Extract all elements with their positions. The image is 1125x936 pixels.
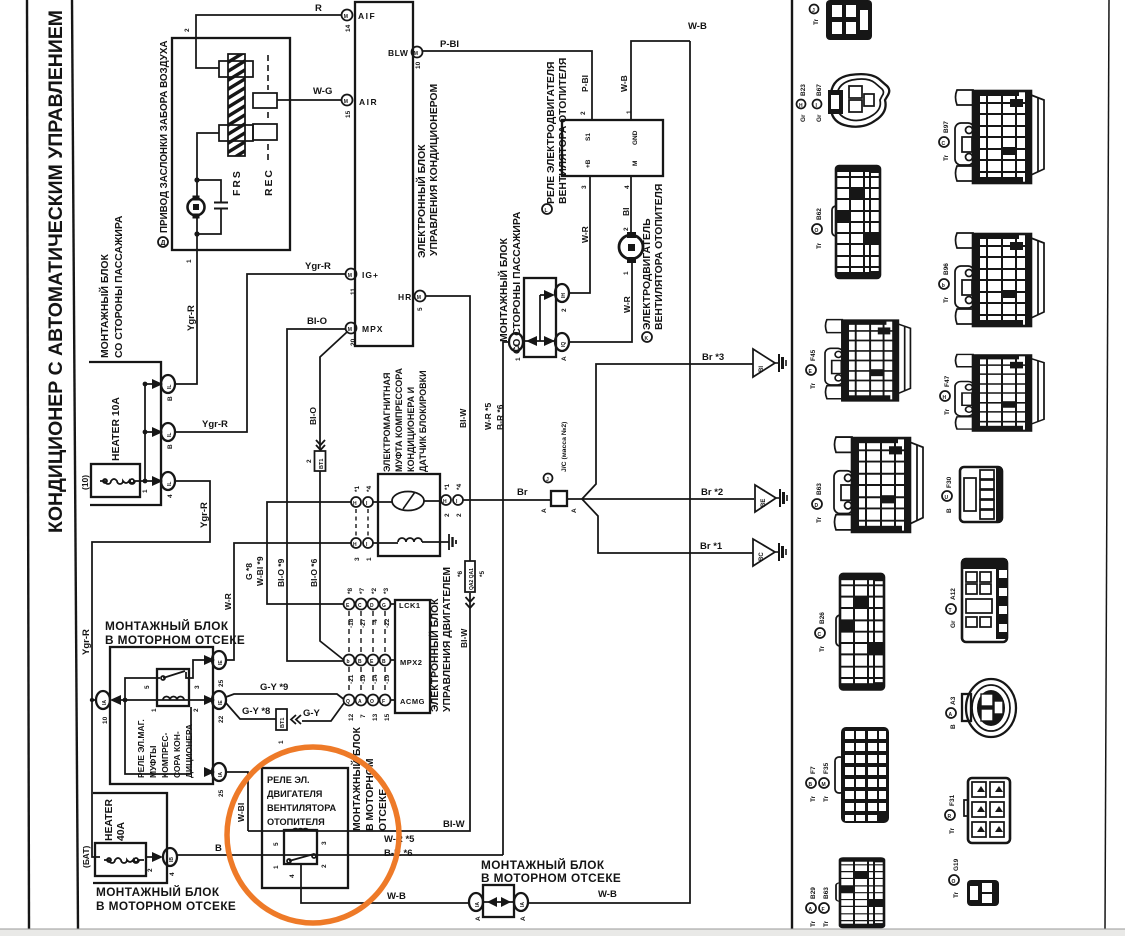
svg-text:P-BI: P-BI: [440, 39, 459, 50]
svg-text:b: b: [942, 283, 945, 289]
svg-text:O: O: [952, 879, 956, 885]
clutch internal wire top: [374, 501, 441, 502]
svg-text:ПРИВОД ЗАСЛОНКИ ЗАБОРА ВОЗДУХА: ПРИВОД ЗАСЛОНКИ ЗАБОРА ВОЗДУХА: [159, 41, 170, 234]
svg-text:МУФТА КОМПРЕССОРА: МУФТА КОМПРЕССОРА: [394, 368, 404, 472]
junction dot damper bottom: [194, 231, 199, 236]
svg-text:B: B: [382, 659, 386, 665]
svg-text:B-R *6: B-R *6: [495, 404, 505, 430]
connector Tr O B62: [832, 166, 880, 278]
svg-text:Br *3: Br *3: [702, 352, 724, 363]
svg-text:14: 14: [345, 24, 352, 32]
svg-text:A: A: [520, 916, 527, 921]
svg-text:МОНТАЖНЫЙ БЛОК: МОНТАЖНЫЙ БЛОК: [481, 858, 605, 872]
svg-text:МОНТАЖНЫЙ БЛОК: МОНТАЖНЫЙ БЛОК: [98, 254, 111, 358]
svg-text:ЭЛЕКТРОННЫЙ БЛОК: ЭЛЕКТРОННЫЙ БЛОК: [428, 598, 441, 712]
svg-text:C: C: [358, 603, 362, 609]
svg-text:M: M: [414, 51, 418, 57]
svg-text:ВЕНТИЛЯТОРА ОТОПИТЕЛЯ: ВЕНТИЛЯТОРА ОТОПИТЕЛЯ: [654, 184, 665, 330]
svg-text:4: 4: [624, 185, 631, 189]
heater fan motor ЭЛЕКТРОДВИГАТЕЛЬ ВЕНТИЛЯТОРА ОТОПИТЕЛЯ: [619, 227, 643, 275]
oval connector IB with arrow: [152, 848, 177, 876]
svg-text:H: H: [353, 542, 357, 548]
svg-text:IL: IL: [167, 433, 173, 437]
svg-text:КОНДИЦИОНЕРА И: КОНДИЦИОНЕРА И: [406, 387, 416, 472]
svg-text:5: 5: [144, 685, 151, 689]
damper dashed travel line: [267, 55, 269, 162]
svg-text:*2: *2: [371, 587, 378, 594]
svg-text:M: M: [344, 14, 348, 20]
svg-text:ДИЦИОНЕРА: ДИЦИОНЕРА: [184, 724, 194, 778]
svg-text:A: A: [541, 508, 548, 513]
svg-text:2: 2: [321, 864, 328, 868]
svg-text:W-BI *9: W-BI *9: [255, 556, 265, 586]
svg-text:1: 1: [623, 271, 630, 275]
damper motor M1: [188, 196, 205, 219]
fuse right lead with pin 1: [140, 480, 152, 482]
clutch pins left bottom H I: [351, 538, 373, 561]
fuse 40A right lead pin 2: [146, 856, 152, 858]
svg-text:B97: B97: [943, 121, 950, 133]
svg-text:B: B: [358, 659, 362, 665]
svg-text:15: 15: [384, 713, 391, 721]
svg-text:2: 2: [193, 708, 200, 712]
wire damper motor lead down: [196, 215, 198, 250]
svg-text:МОНТАЖНЫЙ БЛОК: МОНТАЖНЫЙ БЛОК: [105, 619, 229, 633]
wire B / W-R*5 B-R*6 through fan relay: [177, 854, 503, 856]
svg-text:1: 1: [142, 489, 149, 493]
svg-text:FRS: FRS: [232, 169, 243, 196]
svg-text:BI-W: BI-W: [443, 819, 465, 830]
svg-text:F: F: [382, 699, 385, 705]
border line right page edge: [1105, 0, 1109, 929]
fuse HEATER 10A element: [100, 479, 140, 484]
svg-text:1: 1: [626, 110, 633, 114]
svg-text:*1: *1: [444, 483, 451, 490]
connector Tr O G19: [949, 858, 999, 906]
svg-text:IL: IL: [167, 385, 173, 389]
relay coil on wire: [163, 697, 184, 700]
compressor clutch box ЭЛЕКТРОМАГНИТНАЯ МУФТА КОМПРЕССОРА: [378, 474, 440, 556]
svg-text:T: T: [949, 608, 952, 614]
damper top crossing plate: [219, 61, 253, 77]
pin AIR 15: [342, 95, 379, 119]
border line left outer: [27, 0, 29, 929]
fan relay name label with circled L: [542, 58, 569, 214]
svg-text:F30: F30: [946, 476, 953, 488]
svg-text:УПРАВЛЕНИЯ ДВИГАТЕЛЕМ: УПРАВЛЕНИЯ ДВИГАТЕЛЕМ: [442, 567, 453, 712]
fan motor relay block РЕЛЕ ЭЛ. ДВИГАТЕЛЯ ВЕНТИЛЯТОРА ОТОПИТЕЛЯ: [262, 768, 348, 888]
wire damper internal bottom plate to motor: [197, 133, 219, 198]
clutch pins right H I: [441, 483, 463, 517]
oval connector 4(IL) bottom with arrow: [152, 472, 175, 498]
svg-text:22: 22: [218, 715, 225, 723]
wire HR / BI-W down to fan relay block: [426, 296, 471, 561]
svg-text:MPX2: MPX2: [400, 658, 422, 667]
svg-text:B23: B23: [800, 84, 807, 96]
ground at clutch sensor: [449, 534, 456, 550]
dashed bus LCK1 to MPX2: [349, 611, 385, 653]
svg-text:2: 2: [147, 868, 154, 872]
svg-text:Ygr-R: Ygr-R: [186, 305, 197, 331]
svg-text:Tr: Tr: [823, 795, 830, 802]
svg-text:G-Y *8: G-Y *8: [242, 706, 270, 717]
wire W-B long vertical right: [528, 41, 690, 903]
svg-text:Tr: Tr: [953, 891, 960, 898]
connector Tr D B63: [834, 437, 923, 532]
svg-text:*8: *8: [347, 587, 354, 594]
svg-text:BC: BC: [759, 552, 765, 561]
connector B A A3 round: [946, 679, 1016, 737]
svg-text:S1: S1: [585, 133, 592, 141]
svg-text:P-BI: P-BI: [580, 75, 590, 92]
ground triangle BI (Br *3): [753, 349, 786, 377]
connector Tr E F45: [825, 320, 910, 401]
svg-text:4: 4: [167, 494, 174, 498]
svg-text:*4: *4: [456, 483, 463, 490]
svg-text:3: 3: [194, 685, 201, 689]
svg-text:1: 1: [186, 259, 193, 263]
svg-text:IL: IL: [167, 482, 173, 486]
JB2 internal riser: [539, 295, 541, 341]
svg-text:AIF: AIF: [358, 11, 376, 21]
svg-text:IL: IL: [515, 343, 521, 347]
svg-text:Gr: Gr: [950, 620, 957, 628]
oval connector A(IA) right: [514, 893, 528, 921]
svg-text:AIR: AIR: [359, 97, 378, 107]
connector Tr b B96: [955, 233, 1044, 326]
svg-text:BI-O: BI-O: [308, 407, 318, 425]
svg-text:1: 1: [273, 865, 280, 869]
svg-text:1: 1: [151, 708, 158, 712]
pin row ACMG: Q A O F: [344, 695, 396, 722]
wire Ygr-R from bottom oval down-left: [92, 481, 210, 857]
connector Tr B F7 / Tr M F35: [806, 727, 889, 823]
wire W-B from fan relay pin4: [301, 864, 469, 903]
svg-text:IQ: IQ: [561, 342, 567, 347]
wire Br *3 branch up: [582, 364, 753, 499]
svg-text:+B: +B: [585, 159, 592, 168]
svg-text:O: O: [370, 699, 374, 705]
svg-text:BLW: BLW: [388, 48, 409, 58]
svg-text:12: 12: [348, 713, 355, 721]
svg-text:G19: G19: [953, 858, 960, 871]
svg-text:ЭЛЕКТРОДВИГАТЕЛЬ: ЭЛЕКТРОДВИГАТЕЛЬ: [642, 218, 653, 330]
svg-text:5: 5: [273, 842, 280, 846]
pin IG+ 11: [346, 269, 379, 296]
svg-text:Tr: Tr: [816, 242, 823, 249]
bottom block arrows: [487, 897, 497, 907]
svg-text:ЭЛЕКТРОННЫЙ БЛОК: ЭЛЕКТРОННЫЙ БЛОК: [415, 144, 428, 258]
svg-text:Ygr-R: Ygr-R: [81, 629, 92, 655]
svg-text:ДАТЧИК БЛОКИРОВКИ: ДАТЧИК БЛОКИРОВКИ: [418, 370, 428, 472]
svg-text:W-B: W-B: [598, 889, 617, 900]
svg-text:Ygr-R: Ygr-R: [199, 502, 210, 528]
svg-text:W-R *5: W-R *5: [483, 403, 493, 430]
connector Tr H F47: [955, 354, 1044, 430]
svg-text:Ygr-R: Ygr-R: [202, 419, 228, 430]
svg-text:3: 3: [354, 557, 361, 561]
junction dot damper top: [194, 177, 199, 182]
svg-text:MPX: MPX: [362, 324, 383, 334]
svg-text:Tr: Tr: [810, 382, 817, 389]
fuse HEATER 40A element: [104, 858, 144, 863]
oval connector B(IL) top with arrow: [145, 375, 175, 401]
svg-text:M: M: [822, 782, 826, 788]
svg-text:G-Y: G-Y: [303, 708, 321, 719]
relay switch contact: [161, 676, 165, 680]
wire into fan relay block: [248, 830, 349, 832]
svg-text:B: B: [809, 782, 813, 788]
svg-text:В МОТОРНОМ ОТСЕКЕ: В МОТОРНОМ ОТСЕКЕ: [481, 871, 621, 885]
connector Tr A B29 / Tr F B63: [836, 858, 884, 927]
wire W-R*5/B-R*6 from JB2 left oval down: [503, 342, 509, 855]
svg-text:СОРА КОН-: СОРА КОН-: [172, 731, 182, 778]
svg-text:ОТОПИТЕЛЯ: ОТОПИТЕЛЯ: [267, 817, 325, 827]
wire P-BI from BLW to fan relay pin2: [423, 51, 593, 119]
svg-text:W-B: W-B: [688, 21, 707, 32]
svg-text:BI: BI: [759, 366, 765, 372]
svg-text:Tr: Tr: [823, 920, 830, 927]
svg-text:*3: *3: [383, 587, 390, 594]
oval connector IE middle with arrow: [204, 691, 226, 723]
svg-text:B62: B62: [816, 208, 823, 220]
svg-text:K: K: [645, 336, 649, 342]
svg-text:Gr: Gr: [800, 114, 807, 122]
oval connector A(IA) left: [469, 893, 483, 921]
connector QA2/QA1 on BI-W wire: [457, 561, 486, 608]
svg-text:ДВИГАТЕЛЯ: ДВИГАТЕЛЯ: [267, 789, 322, 799]
svg-text:M: M: [348, 327, 352, 333]
border line left inner: [72, 0, 78, 929]
svg-text:C: C: [942, 141, 946, 147]
svg-text:Tr: Tr: [949, 827, 956, 834]
fan relay inner square: [284, 830, 317, 864]
connector Tr J top: [810, 0, 873, 40]
svg-text:IA: IA: [475, 902, 481, 907]
svg-text:W-R: W-R: [223, 593, 233, 610]
svg-text:Gr: Gr: [816, 114, 823, 122]
svg-text:W-R: W-R: [580, 226, 590, 243]
bottom junction block МОНТАЖНЫЙ БЛОК В МОТОРНОМ ОТСЕКЕ: [483, 885, 514, 917]
oval connector IA left with arrow: [96, 691, 121, 724]
fuse HEATER 40A box: [95, 843, 146, 876]
svg-text:A: A: [358, 699, 362, 705]
svg-text:20: 20: [350, 338, 357, 346]
svg-text:B: B: [167, 444, 174, 449]
connector B U F30: [942, 467, 1002, 522]
heater 40A junction bracket: [93, 793, 167, 883]
svg-text:МОНТАЖНЫЙ БЛОК: МОНТАЖНЫЙ БЛОК: [96, 885, 220, 899]
svg-text:H: H: [353, 501, 357, 507]
svg-text:(10): (10): [80, 475, 90, 490]
wire BI from pin4 to heater fan motor: [630, 176, 632, 233]
svg-text:РЕЛЕ ЭЛ.: РЕЛЕ ЭЛ.: [267, 775, 310, 785]
svg-text:IE: IE: [218, 700, 224, 705]
svg-text:J/C (масса №2): J/C (масса №2): [561, 422, 568, 472]
svg-text:*6: *6: [457, 570, 464, 577]
wire BI-O from MPX to engine ECU LCK row: [287, 329, 346, 661]
oval connector 2(IH): [555, 284, 569, 312]
junction vertical inside JB1: [144, 384, 146, 481]
damper REC position plate: [253, 124, 277, 140]
svg-text:2: 2: [580, 111, 587, 115]
svg-text:QA2 QA1: QA2 QA1: [469, 568, 475, 590]
connector BT on BI-O wire: [306, 440, 326, 471]
pin HR 5: [398, 291, 426, 312]
svg-text:Br *1: Br *1: [700, 541, 723, 552]
svg-text:M: M: [632, 161, 639, 166]
fuse HEATER 10A box: [91, 464, 140, 497]
svg-text:REC: REC: [264, 168, 275, 196]
svg-text:BI-O *6: BI-O *6: [309, 558, 319, 587]
svg-text:B: B: [950, 724, 957, 729]
svg-text:B63: B63: [816, 483, 823, 495]
svg-text:F47: F47: [944, 375, 951, 387]
svg-text:ЭЛЕКТРОМАГНИТНАЯ: ЭЛЕКТРОМАГНИТНАЯ: [382, 372, 392, 472]
svg-text:1: 1: [515, 357, 522, 361]
svg-text:D: D: [370, 603, 374, 609]
svg-text:15: 15: [345, 110, 352, 118]
svg-text:2: 2: [444, 513, 451, 517]
relay coil return loop: [125, 700, 191, 774]
svg-text:H: H: [799, 103, 803, 109]
border line connector panel: [791, 0, 793, 929]
engine ECU box ЭЛЕКТРОННЫЙ БЛОК УПРАВЛЕНИЯ ДВИГАТЕЛЕМ: [395, 600, 430, 713]
wire Br *1 branch down: [582, 499, 753, 553]
pin AIF 14: [342, 10, 377, 33]
clutch coil oval with arrow: [392, 492, 424, 511]
svg-text:HEATER 10A: HEATER 10A: [111, 397, 122, 461]
svg-text:40A: 40A: [116, 821, 127, 841]
relay pin5 feed: [125, 678, 160, 700]
svg-text:2: 2: [561, 308, 568, 312]
svg-text:IB: IB: [169, 857, 175, 862]
svg-text:МОНТАЖНЫЙ БЛОК: МОНТАЖНЫЙ БЛОК: [350, 727, 363, 831]
main wire through compressor relay: [115, 699, 205, 701]
svg-text:A: A: [571, 508, 578, 513]
svg-text:25: 25: [218, 679, 225, 687]
svg-text:F7: F7: [810, 766, 817, 774]
svg-text:B29: B29: [810, 887, 817, 899]
svg-text:*7: *7: [359, 587, 366, 594]
svg-text:A3: A3: [950, 696, 957, 705]
svg-text:10: 10: [102, 716, 109, 724]
svg-text:H: H: [443, 499, 447, 505]
svg-text:11: 11: [350, 288, 357, 295]
svg-text:W-G: W-G: [313, 86, 332, 97]
svg-text:A: A: [475, 916, 482, 921]
svg-text:B: B: [215, 843, 222, 854]
wire G-Y to ACMG row: [302, 703, 344, 721]
connector Tr C B26: [836, 574, 884, 689]
oval connector A(IQ) right: [555, 333, 569, 361]
oval connector B(IL) middle with arrow: [145, 423, 175, 449]
svg-text:IA: IA: [520, 902, 526, 907]
connector Gr T A12: [946, 559, 1007, 642]
clutch lock sensor wire bottom with inductor: [374, 542, 399, 544]
heater fan motor name with circled K: [642, 184, 665, 342]
stub from Ygr-R drop to IA oval: [92, 699, 96, 701]
bottom scan bar: [0, 929, 1125, 936]
wire Br *2 from J/C to ground BE: [567, 498, 754, 500]
wire W-BI from IA bottom oval to fan relay: [226, 772, 248, 831]
svg-text:Br *2: Br *2: [701, 487, 723, 498]
wire W-R from pin3 down: [569, 176, 590, 293]
damper capacitor C1: [197, 180, 228, 234]
svg-text:3: 3: [321, 841, 328, 845]
connector Tr C B97: [955, 90, 1044, 183]
svg-text:(БАТ): (БАТ): [81, 845, 91, 868]
svg-text:L: L: [545, 208, 548, 214]
oval connector 1(IL) left: [509, 333, 523, 361]
svg-text:13: 13: [372, 713, 379, 721]
svg-text:ВЕНТИЛЯТОРА ОТОПИТЕЛЯ: ВЕНТИЛЯТОРА ОТОПИТЕЛЯ: [558, 58, 569, 204]
svg-text:Ygr-R: Ygr-R: [305, 261, 331, 272]
JB2 bottom feed with arrows: [524, 340, 556, 342]
A/C ECU box ЭЛЕКТРОННЫЙ БЛОК УПРАВЛЕНИЯ КОНДИЦИОНЕРОМ: [355, 2, 413, 346]
svg-text:Tr: Tr: [810, 795, 817, 802]
svg-text:BT1: BT1: [280, 718, 286, 728]
engine compartment junction block МОНТАЖНЫЙ БЛОК В МОТОРНОМ ОТСЕКЕ: [110, 647, 213, 784]
svg-text:W-BI: W-BI: [236, 803, 246, 822]
wire damper internal top: [196, 38, 219, 68]
air intake damper actuator box: [172, 38, 290, 250]
wire BI-O *6 from MPX diagonal down through BT: [320, 332, 347, 449]
svg-text:*1: *1: [354, 485, 361, 492]
svg-text:HEATER: HEATER: [104, 799, 115, 841]
svg-text:IH: IH: [561, 293, 567, 298]
wire W-R from motor down to JB2: [569, 262, 632, 342]
svg-text:ACMG: ACMG: [400, 697, 425, 706]
compressor clutch relay РЕЛЕ ЭЛ.МАГ. МУФТЫ КОМПРЕССОРА box: [157, 669, 189, 706]
svg-text:МОНТАЖНЫЙ БЛОК: МОНТАЖНЫЙ БЛОК: [497, 238, 510, 342]
svg-text:5: 5: [417, 307, 424, 311]
wire from top oval up to damper pin1: [175, 250, 197, 384]
svg-text:M: M: [344, 99, 348, 105]
svg-text:IA: IA: [102, 700, 108, 705]
svg-text:B: B: [167, 396, 174, 401]
svg-text:B26: B26: [819, 612, 826, 624]
pin row MPX2: b B E B: [344, 655, 396, 685]
svg-text:4: 4: [169, 872, 176, 876]
svg-text:LCK1: LCK1: [399, 601, 421, 610]
svg-text:BI-O *9: BI-O *9: [276, 558, 286, 587]
svg-text:*4: *4: [366, 485, 373, 492]
svg-text:R: R: [948, 814, 952, 820]
svg-text:M: M: [348, 273, 352, 279]
connector Tr R F31: [945, 778, 1010, 843]
passenger junction block 2 box: [524, 278, 556, 357]
fan relay pin 1 and W-B wire up: [631, 41, 690, 120]
svg-text:Tr: Tr: [943, 154, 950, 161]
orange highlight ellipse: [227, 747, 399, 923]
svg-text:2: 2: [306, 459, 313, 463]
svg-text:7: 7: [360, 714, 367, 718]
svg-text:УПРАВЛЕНИЯ КОНДИЦИОНЕРОМ: УПРАВЛЕНИЯ КОНДИЦИОНЕРОМ: [429, 84, 440, 256]
wire G-Y *8 from IE mid through BT: [226, 703, 276, 719]
svg-text:B67: B67: [816, 84, 823, 96]
svg-text:A: A: [949, 712, 953, 718]
svg-text:3: 3: [581, 185, 588, 189]
damper FRS position plate: [253, 93, 277, 108]
passenger junction block bracket: [89, 362, 161, 505]
svg-text:B96: B96: [943, 263, 950, 275]
svg-text:F: F: [822, 907, 825, 913]
svg-text:M: M: [417, 295, 421, 301]
svg-text:IG+: IG+: [362, 270, 379, 280]
svg-text:W-B: W-B: [619, 75, 629, 92]
svg-text:IE: IE: [218, 660, 224, 665]
